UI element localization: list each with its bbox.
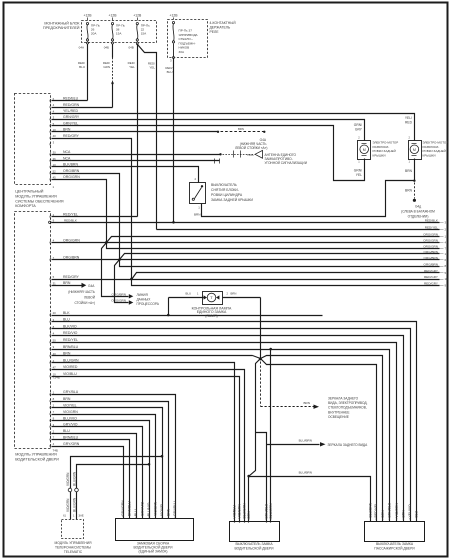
svg-text:RED/YEL: RED/YEL: [425, 226, 439, 230]
svg-text:YEL/VIO: YEL/VIO: [408, 504, 412, 518]
svg-text:РЕЛЕ: РЕЛЕ: [210, 30, 220, 34]
svg-text:BRN/BLU: BRN/BLU: [264, 503, 268, 518]
svg-text:NCA: NCA: [248, 153, 254, 157]
svg-text:ORG/GRN: ORG/GRN: [63, 175, 80, 179]
svg-text:BLU/BRN: BLU/BRN: [369, 502, 373, 517]
svg-text:4-КОНТАКТНЫЙ: 4-КОНТАКТНЫЙ: [210, 21, 237, 25]
svg-text:7: 7: [445, 246, 447, 250]
svg-text:3: 3: [445, 220, 447, 224]
svg-text:6: 6: [445, 258, 447, 262]
svg-text:1: 1: [408, 160, 410, 164]
svg-text:40: 40: [53, 134, 57, 138]
svg-text:ORG/GRN: ORG/GRN: [423, 239, 438, 243]
svg-text:BRN: BRN: [63, 281, 71, 285]
svg-text:61: 61: [63, 514, 66, 518]
svg-text:BRN/BLU: BRN/BLU: [388, 502, 392, 517]
svg-text:ORG/BRN: ORG/BRN: [424, 262, 438, 266]
svg-text:КРЫШКИ: КРЫШКИ: [423, 153, 436, 157]
svg-text:ЗАЕ: ЗАЕ: [79, 514, 84, 518]
svg-text:8: 8: [53, 397, 55, 401]
svg-text:NCA: NCA: [63, 156, 71, 160]
svg-text:ПАССАЖИРСКОЙ ДВЕРИ: ПАССАЖИРСКОЙ ДВЕРИ: [374, 546, 415, 550]
svg-text:2: 2: [358, 136, 360, 140]
svg-text:BLU: BLU: [186, 292, 191, 296]
svg-text:ORG/BRN: ORG/BRN: [112, 292, 126, 296]
svg-text:8: 8: [445, 264, 447, 268]
svg-text:BLU/GRN: BLU/GRN: [72, 471, 76, 486]
svg-text:BRN: BRN: [231, 292, 237, 296]
svg-text:GRY/VIO: GRY/VIO: [141, 502, 145, 516]
svg-text:ЗЕРКАЛА ЗАДНЕГО ВИДА: ЗЕРКАЛА ЗАДНЕГО ВИДА: [328, 443, 369, 447]
svg-text:BLU: BLU: [63, 429, 70, 433]
svg-text:04Б: 04Б: [104, 46, 109, 50]
svg-text:ЗЕРКАЛА ЗАДНЕГО: ЗЕРКАЛА ЗАДНЕГО: [328, 397, 359, 401]
svg-text:(СЛЕВА В БАГАЖНОМ: (СЛЕВА В БАГАЖНОМ: [401, 210, 435, 214]
svg-text:ПРОЦЕССОРА: ПРОЦЕССОРА: [137, 302, 160, 306]
svg-text:50: 50: [53, 338, 57, 342]
svg-text:15А: 15А: [141, 32, 147, 36]
svg-text:BLU: BLU: [415, 510, 419, 517]
svg-text:RED/GRY: RED/GRY: [63, 275, 80, 279]
svg-text:ДЕРЖАТЕЛЬ: ДЕРЖАТЕЛЬ: [210, 25, 231, 29]
svg-text:3: 3: [53, 140, 55, 144]
svg-text:RED/GRY: RED/GRY: [424, 269, 438, 273]
svg-text:BLU/BRN: BLU/BRN: [299, 470, 312, 474]
svg-text:BRN: BRN: [381, 510, 385, 518]
svg-text:VIO/GRN: VIO/GRN: [238, 504, 242, 519]
svg-text:GRY/BLU: GRY/BLU: [173, 501, 177, 516]
svg-text:BLU: BLU: [167, 70, 173, 74]
svg-text:31: 31: [53, 282, 57, 286]
svg-text:BRN: BRN: [238, 127, 244, 131]
svg-text:СНЯТИЯ БЛОКИ-: СНЯТИЯ БЛОКИ-: [211, 188, 239, 192]
svg-text:BLU/GRN: BLU/GRN: [269, 503, 273, 519]
svg-text:TELEMATIC: TELEMATIC: [64, 550, 83, 554]
svg-text:ВОДИТЕЛЬСКОЙ ДВЕРИ: ВОДИТЕЛЬСКОЙ ДВЕРИ: [15, 458, 59, 462]
svg-text:30А: 30А: [179, 50, 185, 54]
svg-text:1: 1: [358, 160, 360, 164]
svg-text:GRY/BLU: GRY/BLU: [63, 390, 79, 394]
svg-text:5: 5: [445, 271, 447, 275]
svg-text:VIO/YEL: VIO/YEL: [63, 403, 77, 407]
svg-text:ORG/BRN: ORG/BRN: [63, 169, 80, 173]
svg-text:VIO/GRN: VIO/GRN: [154, 501, 158, 516]
svg-text:BRN/BLU: BRN/BLU: [63, 345, 79, 349]
svg-text:+12В: +12В: [83, 13, 92, 17]
svg-text:GRY: GRY: [355, 127, 363, 131]
svg-text:BLU/VIO: BLU/VIO: [147, 502, 151, 516]
svg-text:ORG/GRN: ORG/GRN: [63, 238, 80, 242]
svg-text:4: 4: [445, 241, 447, 245]
svg-text:1: 1: [73, 514, 75, 518]
svg-text:RED/GRN: RED/GRN: [63, 103, 80, 107]
svg-text:(ЕДИНЫЙ ЗАМОК): (ЕДИНЫЙ ЗАМОК): [138, 550, 167, 554]
svg-text:BRN/BLU: BRN/BLU: [63, 435, 79, 439]
svg-text:GRN/YEL: GRN/YEL: [63, 121, 78, 125]
svg-text:ВНУТРЕННЕЕ: ВНУТРЕННЕЕ: [328, 410, 350, 414]
svg-text:BRN: BRN: [405, 189, 413, 193]
svg-text:BLU/GRN: BLU/GRN: [72, 497, 76, 512]
svg-text:VIO/GRN: VIO/GRN: [66, 498, 70, 512]
svg-text:ORG/GRN: ORG/GRN: [111, 299, 126, 303]
svg-text:2: 2: [408, 136, 410, 140]
svg-text:ЛЕВОЙ СТОЙКИ «А»): ЛЕВОЙ СТОЙКИ «А»): [235, 146, 267, 150]
svg-text:ЛИНИЯ: ЛИНИЯ: [137, 293, 149, 297]
svg-text:BRN: BRN: [63, 397, 71, 401]
svg-text:ТЕЛЕФОНА/СИСТЕМЫ: ТЕЛЕФОНА/СИСТЕМЫ: [55, 546, 91, 550]
svg-text:ВЫКЛЮЧАТЕЛЬ: ВЫКЛЮЧАТЕЛЬ: [211, 183, 238, 187]
svg-text:GRN/GRY: GRN/GRY: [63, 115, 80, 119]
svg-text:G4д: G4д: [415, 205, 421, 209]
svg-text:RED/GRY: RED/GRY: [63, 134, 80, 138]
svg-text:4: 4: [53, 109, 55, 113]
svg-text:RED: RED: [405, 120, 413, 124]
svg-text:РОВКИ ЦИЛИНДРА: РОВКИ ЦИЛИНДРА: [211, 193, 243, 197]
svg-text:1: 1: [445, 234, 447, 238]
svg-text:RED/YEL: RED/YEL: [63, 213, 78, 217]
svg-text:МОНТАЖНЫЙ БЛОК: МОНТАЖНЫЙ БЛОК: [44, 22, 80, 26]
svg-text:(НИЖНЯЯ ЧАСТЬ: (НИЖНЯЯ ЧАСТЬ: [68, 290, 95, 294]
svg-text:9: 9: [445, 283, 447, 287]
svg-text:СТОЙКИ «А»): СТОЙКИ «А»): [74, 301, 95, 305]
svg-text:10: 10: [445, 277, 449, 281]
svg-text:М: М: [363, 148, 366, 152]
svg-text:ЦЕНТРАЛЬНЫЙ: ЦЕНТРАЛЬНЫЙ: [15, 190, 44, 194]
svg-text:УГОННОЙ СИГНАЛИЗАЦИИ: УГОННОЙ СИГНАЛИЗАЦИИ: [265, 161, 308, 165]
svg-text:BRN: BRN: [194, 212, 201, 216]
svg-text:BLU: BLU: [79, 65, 85, 69]
svg-text:YEL/RED: YEL/RED: [63, 109, 78, 113]
svg-text:МОДУЛЬ УПРАВЛЕНИЯ: МОДУЛЬ УПРАВЛЕНИЯ: [15, 194, 57, 198]
svg-text:ВОДИТЕЛЬСКОЙ ДВЕРИ: ВОДИТЕЛЬСКОЙ ДВЕРИ: [235, 546, 275, 550]
svg-text:VIO/GRN: VIO/GRN: [395, 503, 399, 518]
svg-text:04В: 04В: [128, 46, 133, 50]
svg-text:1: 1: [445, 252, 447, 256]
svg-text:04А: 04А: [79, 46, 84, 50]
svg-text:VIO/BLU: VIO/BLU: [63, 372, 77, 376]
svg-text:5: 5: [53, 275, 55, 279]
svg-text:4: 4: [53, 103, 55, 107]
svg-text:9: 9: [53, 345, 55, 349]
svg-text:BRN: BRN: [405, 169, 413, 173]
svg-text:ОСВЕЩЕНИЕ: ОСВЕЩЕНИЕ: [328, 415, 349, 419]
svg-text:VIO/RED: VIO/RED: [63, 365, 78, 369]
svg-text:КОМФОРТА: КОМФОРТА: [15, 204, 36, 208]
svg-text:BRN: BRN: [303, 401, 310, 405]
svg-text:RED/YEL: RED/YEL: [63, 338, 78, 342]
svg-text:9: 9: [53, 219, 55, 223]
svg-text:3: 3: [170, 59, 172, 63]
svg-text:GRY/GRN: GRY/GRN: [121, 500, 125, 516]
svg-text:+12В: +12В: [108, 13, 117, 17]
svg-text:YEL: YEL: [129, 65, 135, 69]
svg-text:YEL: YEL: [356, 173, 362, 177]
svg-text:RED/VIO: RED/VIO: [63, 331, 78, 335]
svg-text:ORG/BRN: ORG/BRN: [424, 250, 438, 254]
svg-text:BRN/BLU: BRN/BLU: [128, 501, 132, 516]
svg-text:2: 2: [53, 429, 55, 433]
svg-text:(ЛАМП): (ЛАМП): [205, 314, 217, 318]
svg-text:G4А: G4А: [88, 284, 95, 288]
svg-text:15А: 15А: [116, 32, 122, 36]
svg-text:BLU/VIO: BLU/VIO: [63, 416, 77, 420]
svg-text:VIO/GRN: VIO/GRN: [63, 410, 78, 414]
svg-text:2: 2: [194, 177, 196, 181]
svg-text:45: 45: [53, 176, 57, 180]
svg-text:СТЕКЛОПОДЪЕМНИКОВ,: СТЕКЛОПОДЪЕМНИКОВ,: [328, 406, 367, 410]
svg-text:RED/YEL: RED/YEL: [374, 503, 378, 518]
svg-text:2: 2: [445, 228, 447, 232]
svg-text:BRN: BRN: [402, 510, 406, 518]
svg-text:GRN: GRN: [103, 65, 110, 69]
svg-text:10: 10: [53, 372, 57, 376]
svg-text:МОДУЛЬ УПРАВЛЕНИЯ: МОДУЛЬ УПРАВЛЕНИЯ: [15, 453, 57, 457]
svg-text:BLK/VIO: BLK/VIO: [63, 324, 77, 328]
svg-text:ORG/GRN: ORG/GRN: [423, 233, 438, 237]
svg-text:52: 52: [53, 169, 57, 173]
svg-text:VIO/YEL: VIO/YEL: [160, 503, 164, 516]
svg-text:20А: 20А: [91, 32, 97, 36]
svg-text:ЛЕВОЙ: ЛЕВОЙ: [84, 295, 96, 299]
svg-text:СИСТЕМЫ ОБЕСПЕЧЕНИЯ: СИСТЕМЫ ОБЕСПЕЧЕНИЯ: [15, 199, 64, 203]
svg-text:BLU/GRN: BLU/GRN: [63, 358, 79, 362]
svg-text:1: 1: [198, 206, 200, 210]
svg-text:4: 4: [53, 442, 55, 446]
svg-text:20: 20: [53, 311, 57, 315]
svg-text:VIO/GRN: VIO/GRN: [66, 472, 70, 486]
svg-text:RED/BLK: RED/BLK: [425, 219, 439, 223]
svg-text:ДАННЫХ: ДАННЫХ: [137, 297, 152, 301]
svg-text:GRY/GRN: GRY/GRN: [63, 442, 80, 446]
svg-text:BLK: BLK: [63, 311, 70, 315]
svg-text:1: 1: [197, 292, 199, 296]
svg-text:2: 2: [227, 292, 229, 296]
svg-text:RED/GRY: RED/GRY: [424, 275, 438, 279]
svg-text:КРЫШКИ: КРЫШКИ: [373, 153, 386, 157]
svg-text:7: 7: [53, 410, 55, 414]
svg-text:ВИДА, ЭЛЕКТРОПРИВОД,: ВИДА, ЭЛЕКТРОПРИВОД,: [328, 401, 368, 405]
svg-text:ORG/GRN: ORG/GRN: [423, 245, 438, 249]
svg-text:+12В: +12В: [169, 13, 178, 17]
svg-text:ПРЕДОХРАНИТЕЛЕЙ: ПРЕДОХРАНИТЕЛЕЙ: [43, 26, 80, 30]
svg-text:30: 30: [53, 151, 57, 155]
svg-text:ORG/BRN: ORG/BRN: [424, 256, 438, 260]
svg-text:1: 1: [53, 185, 55, 189]
svg-text:GRY/VIO: GRY/VIO: [63, 423, 78, 427]
svg-text:RED/BLK: RED/BLK: [64, 218, 77, 222]
svg-text:+12В: +12В: [133, 13, 142, 17]
svg-text:NCA: NCA: [63, 150, 71, 154]
svg-text:МОДУЛЬ УПРАВЛЕНИЯ: МОДУЛЬ УПРАВЛЕНИЯ: [54, 541, 92, 545]
svg-text:VIO/BLU: VIO/BLU: [233, 505, 237, 519]
svg-text:М: М: [413, 148, 416, 152]
svg-text:RED/GRY: RED/GRY: [424, 282, 438, 286]
svg-text:YEL: YEL: [149, 66, 155, 70]
svg-text:BLU/BRN: BLU/BRN: [299, 439, 312, 443]
svg-text:ЗАМКА ЗАДНЕЙ КРЫШКИ: ЗАМКА ЗАДНЕЙ КРЫШКИ: [211, 198, 253, 202]
svg-text:Т: Т: [210, 295, 213, 300]
